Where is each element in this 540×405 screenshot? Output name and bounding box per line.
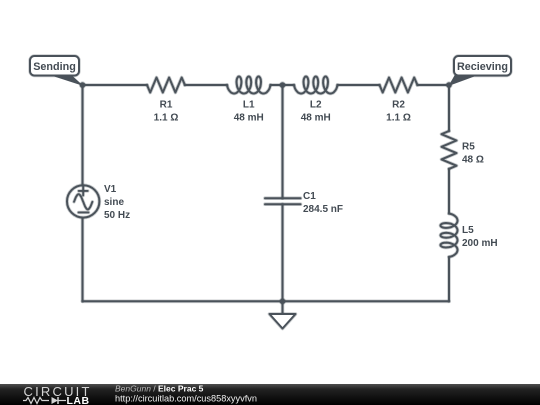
svg-text:L1: L1 — [243, 100, 255, 111]
flag Recieving — [449, 56, 512, 86]
wire: L2 to R2 — [338, 83, 380, 87]
node: Recieving junction — [445, 81, 452, 88]
capacitor C1 top plate — [265, 196, 301, 200]
logo resistor squiggle — [23, 398, 49, 404]
svg-text:L5: L5 — [462, 225, 474, 236]
label V1 value — [104, 184, 130, 221]
logo diode — [52, 397, 59, 404]
wire top-left: node to R1 — [83, 83, 148, 87]
label C1 value — [303, 191, 343, 215]
resistor R1 — [147, 78, 185, 93]
svg-text:LAB: LAB — [67, 395, 90, 405]
svg-text:1.1 Ω: 1.1 Ω — [154, 113, 179, 124]
wire middle vertical: C1 to ground node — [281, 204, 285, 301]
inductor L5 — [441, 214, 458, 258]
wire left vertical: node to V1 — [81, 85, 85, 185]
resistor R2 — [380, 78, 418, 93]
svg-text:R2: R2 — [392, 100, 405, 111]
svg-text:L2: L2 — [310, 100, 322, 111]
label R2 value — [386, 100, 411, 124]
label R5 value — [462, 142, 484, 166]
wire: L1 to node A — [271, 83, 295, 87]
wire middle vertical: node A to C1 — [281, 85, 285, 198]
svg-text:48 Ω: 48 Ω — [462, 155, 484, 166]
wire right vertical: R5 to L5 — [447, 169, 451, 214]
inductor L1 — [227, 77, 271, 94]
svg-text:http://circuitlab.com/cus858xy: http://circuitlab.com/cus858xyyvfvn — [115, 394, 257, 404]
wire bottom rail — [83, 299, 450, 303]
svg-text:R5: R5 — [462, 142, 475, 153]
voltage source V1 — [67, 185, 99, 217]
ground — [270, 301, 296, 328]
svg-text:sine: sine — [104, 197, 124, 208]
svg-text:48 mH: 48 mH — [234, 113, 264, 124]
node: ground junction — [279, 298, 286, 305]
label L2 value — [301, 100, 331, 124]
resistor R5 — [442, 131, 457, 169]
svg-text:50 Hz: 50 Hz — [104, 210, 130, 221]
svg-text:BenGunn / Elec Prac 5: BenGunn / Elec Prac 5 — [115, 383, 204, 393]
footer bar — [0, 384, 540, 405]
svg-text:C1: C1 — [303, 191, 316, 202]
wire: R1 to L1 — [185, 83, 227, 87]
node: Sending junction — [79, 81, 86, 88]
flag Sending — [30, 56, 84, 86]
svg-text:200 mH: 200 mH — [462, 238, 498, 249]
wire: R2 to right node — [417, 83, 449, 87]
label L5 value — [462, 225, 498, 249]
svg-text:1.1 Ω: 1.1 Ω — [386, 113, 411, 124]
capacitor C1 bottom plate — [265, 202, 301, 206]
wire right vertical: L5 to bottom rail — [447, 257, 451, 301]
inductor L2 — [294, 77, 338, 94]
wire left vertical: V1 to bottom rail — [81, 218, 85, 302]
label R1 value — [154, 100, 179, 124]
svg-text:48 mH: 48 mH — [301, 113, 331, 124]
svg-text:R1: R1 — [160, 100, 173, 111]
svg-text:V1: V1 — [104, 184, 117, 195]
svg-text:Sending: Sending — [33, 61, 76, 73]
wire right vertical: node to R5 — [447, 85, 451, 131]
node A: L1/L2/C1 junction — [279, 81, 286, 88]
svg-text:Recieving: Recieving — [457, 61, 508, 73]
label L1 value — [234, 100, 264, 124]
svg-text:284.5 nF: 284.5 nF — [303, 204, 343, 215]
